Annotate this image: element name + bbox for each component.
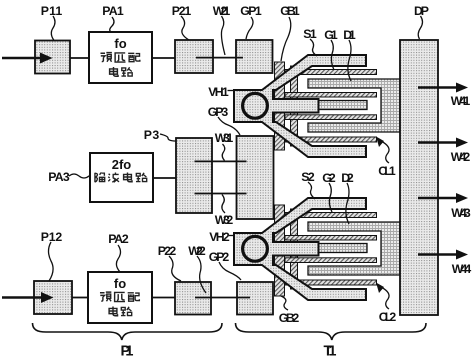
- CL1 arrowhead: [376, 137, 384, 148]
- gate bus A cell1: [275, 62, 285, 150]
- svg-text:G2: G2: [322, 171, 336, 185]
- leader PA2: [116, 245, 120, 272]
- wire W22 (P22-GP2): [195, 297, 250, 299]
- box PA3 (2fo notch circuit): [90, 153, 153, 202]
- gate bus B cell1: [291, 66, 298, 146]
- box PA1 (fo pre-match circuit): [89, 32, 152, 83]
- leader VH2: [229, 235, 234, 237]
- svg-text:W32: W32: [215, 213, 234, 227]
- text 陷波电路 in PA3: [95, 172, 105, 182]
- leader GB2: [281, 296, 288, 310]
- box P3: [176, 138, 212, 213]
- svg-text:W44: W44: [452, 262, 472, 276]
- svg-text:P21: P21: [172, 4, 192, 18]
- svg-text:S2: S2: [301, 170, 315, 184]
- svg-text:fo: fo: [114, 36, 126, 51]
- leader VH1: [228, 90, 236, 92]
- box GP3: [237, 136, 274, 219]
- leader DP: [418, 16, 422, 39]
- gate finger G1a: [285, 70, 377, 75]
- drain connector CL1 (C-shape): [308, 79, 400, 132]
- svg-text:W22: W22: [188, 244, 206, 258]
- leader PA1: [110, 17, 114, 32]
- svg-text:D1: D1: [343, 28, 356, 42]
- brace T1: [236, 323, 427, 340]
- svg-text:GP1: GP1: [240, 4, 262, 18]
- leader GB1: [281, 17, 291, 61]
- svg-text:2fo: 2fo: [112, 157, 132, 172]
- wire PA2-P22: [152, 297, 175, 299]
- wire W21 (P21-GP1): [196, 57, 243, 59]
- text 电路 in PA2: [109, 306, 117, 315]
- svg-text:fo: fo: [114, 276, 126, 291]
- CL2 arrowhead: [376, 283, 384, 294]
- source fan S1 (pad + arms + fingers): [234, 55, 366, 157]
- box GP1: [236, 40, 273, 73]
- leader P21: [181, 16, 189, 40]
- wire P11-PA1: [70, 57, 89, 59]
- input arrow (bottom): [2, 292, 54, 303]
- leader P11: [51, 16, 55, 41]
- svg-text:D2: D2: [341, 171, 354, 185]
- text 预匹配 in PA1: [100, 53, 111, 62]
- text 电路 in PA1: [110, 67, 118, 76]
- svg-text:G1: G1: [324, 28, 338, 42]
- input arrow (top): [2, 53, 53, 64]
- box P11: [35, 41, 70, 74]
- svg-text:GP2: GP2: [209, 250, 230, 264]
- leader W22: [197, 256, 206, 293]
- leader P22: [169, 256, 181, 281]
- svg-text:GB2: GB2: [279, 311, 300, 325]
- drain pad DP: [400, 40, 438, 315]
- arrow W44: [418, 250, 468, 260]
- box P21: [175, 40, 213, 73]
- gate finger G1c: [285, 115, 377, 120]
- svg-text:W21: W21: [213, 4, 231, 18]
- svg-text:P11: P11: [41, 4, 63, 18]
- text 预匹配 in PA2: [100, 292, 111, 301]
- arrow W42: [418, 138, 468, 148]
- leader P12: [49, 242, 54, 281]
- leader W31: [222, 144, 225, 161]
- svg-text:T1: T1: [324, 344, 337, 359]
- leader GP3: [218, 117, 240, 135]
- box P12: [34, 281, 72, 314]
- wire PA1-P21: [152, 57, 175, 59]
- gate finger G1b: [285, 93, 377, 98]
- svg-text:CL1: CL1: [378, 164, 396, 178]
- svg-text:S1: S1: [303, 27, 317, 41]
- svg-text:PA3: PA3: [48, 170, 70, 184]
- gate bus A cell2: [275, 205, 285, 296]
- svg-text:VH2: VH2: [209, 230, 230, 244]
- label PA3 leader: [69, 174, 90, 178]
- leader S1: [310, 39, 317, 56]
- leader W32: [222, 195, 225, 214]
- brace P1: [33, 323, 223, 340]
- gate finger G2b: [285, 236, 377, 241]
- drain finger D1 middle: [319, 101, 368, 110]
- arrow W41: [418, 83, 468, 93]
- leader G2: [329, 183, 332, 212]
- svg-text:W42: W42: [451, 150, 471, 164]
- leader D2: [346, 183, 349, 224]
- gate finger G2a: [285, 213, 377, 218]
- svg-text:W43: W43: [451, 206, 471, 220]
- box GP2: [237, 282, 273, 315]
- svg-text:VH1: VH1: [208, 85, 229, 99]
- svg-text:PA2: PA2: [108, 232, 129, 246]
- leader D1: [348, 40, 351, 81]
- svg-text:CL2: CL2: [379, 310, 397, 324]
- leader W21: [221, 16, 225, 55]
- svg-text:PA1: PA1: [102, 4, 124, 18]
- wire P12-PA2: [72, 297, 88, 299]
- svg-text:GB1: GB1: [280, 4, 300, 18]
- leader P3: [160, 134, 176, 141]
- leader CL1 arrow: [381, 141, 389, 163]
- leader CL2 arrow: [381, 287, 389, 309]
- svg-text:P3: P3: [144, 128, 160, 142]
- leader S2: [308, 182, 315, 199]
- gate bus B cell2: [291, 209, 298, 289]
- gate finger G2d: [285, 280, 377, 285]
- wire W31 (P3-GP3): [195, 160, 247, 162]
- source fan S2 (pad + arms + fingers): [234, 198, 366, 300]
- svg-text:W41: W41: [451, 94, 471, 108]
- drain connector CL2 (C-shape): [308, 222, 400, 275]
- svg-text:P22: P22: [158, 244, 177, 258]
- leader GP1: [246, 17, 253, 39]
- svg-text:W31: W31: [215, 131, 234, 145]
- leader G1: [331, 40, 334, 70]
- arrow W43: [418, 193, 468, 203]
- svg-text:P1: P1: [121, 344, 134, 359]
- wire PA3-P3: [153, 177, 176, 179]
- gate finger G1d: [285, 137, 377, 142]
- svg-text:P12: P12: [41, 230, 63, 244]
- svg-text:GP3: GP3: [208, 105, 229, 119]
- gate finger G2c: [285, 258, 377, 263]
- drain finger D2 middle: [319, 244, 368, 253]
- leader GP2: [219, 262, 241, 280]
- wire W32 (P3-GP3): [195, 193, 247, 195]
- via hole VH1 (circle): [243, 93, 268, 118]
- box P22: [175, 282, 211, 315]
- box PA2 (fo pre-match circuit): [88, 272, 152, 323]
- svg-text:DP: DP: [414, 4, 429, 18]
- via hole VH2 (circle): [243, 236, 268, 261]
